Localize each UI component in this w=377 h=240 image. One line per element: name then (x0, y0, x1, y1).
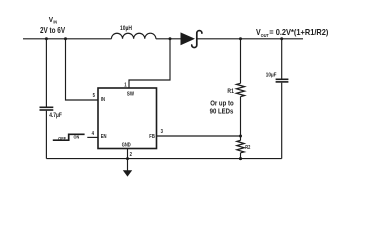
value label 10uH (120, 25, 132, 32)
EN drive waveform source (53, 134, 85, 140)
annotation Or up to 90 LEDs (210, 100, 234, 116)
svg-text:2: 2 (130, 151, 133, 156)
svg-text:5: 5 (93, 93, 96, 98)
node VOUT label (256, 28, 329, 38)
pin number 1 (124, 82, 127, 87)
wire between inductor and diode (156, 38, 181, 40)
node junction dot VIN A (45, 37, 48, 40)
svg-text:V: V (256, 28, 261, 38)
svg-text:OUT: OUT (261, 32, 269, 37)
wire input cap branch upper (45, 39, 47, 107)
ground (123, 159, 132, 177)
wire output cap branch upper (281, 39, 283, 79)
wire IN pin branch (66, 39, 99, 100)
label OFF (58, 136, 66, 142)
resistor R1 (237, 83, 245, 96)
svg-text:IN: IN (53, 19, 57, 25)
svg-text:Or up to: Or up to (210, 100, 233, 108)
svg-text:OFF: OFF (58, 136, 66, 142)
wire FB pin (157, 135, 241, 137)
wire GND pin (127, 149, 129, 159)
node junction dot R1 top (239, 37, 242, 40)
label ON (74, 134, 80, 140)
node junction dot VOUT (280, 37, 283, 40)
svg-text:EN: EN (101, 134, 107, 140)
wire output cap branch lower (281, 83, 283, 159)
pin label GND (122, 142, 132, 148)
pin number 4 (92, 130, 95, 135)
node junction dot GND (126, 157, 129, 160)
svg-text:FB: FB (149, 134, 155, 140)
capacitor C1 4.7uF (40, 107, 54, 110)
pin label EN (101, 134, 107, 140)
pin number 5 (93, 93, 96, 98)
pin number 3 (161, 129, 164, 134)
node junction dot R2 rail (239, 157, 242, 160)
op-amp U1 IC body (98, 88, 157, 149)
svg-text:ON: ON (74, 134, 80, 140)
wire R1 branch upper (240, 39, 242, 84)
value label 4.7uF (49, 112, 62, 119)
wire top rail output segment (196, 38, 303, 40)
svg-text:SW: SW (127, 91, 135, 97)
svg-text:IN: IN (101, 97, 106, 103)
svg-text:10µF: 10µF (266, 72, 277, 79)
svg-text:90 LEDs: 90 LEDs (210, 108, 234, 116)
wire R1 branch lower (240, 97, 242, 136)
wire R2 upper stub (240, 136, 242, 140)
node junction dot VIN B (64, 37, 67, 40)
pin label IN (101, 97, 106, 103)
svg-text:4: 4 (92, 130, 95, 135)
svg-text:2V to 6V: 2V to 6V (40, 25, 65, 35)
wire top rail input segment (23, 38, 111, 40)
svg-text:R2: R2 (245, 144, 251, 150)
wire EN pin (87, 136, 98, 138)
wire R2 lower stub (240, 153, 242, 159)
svg-text:4.7µF: 4.7µF (49, 112, 62, 119)
wire bottom rail (46, 158, 281, 160)
reference label R2 (245, 144, 251, 150)
capacitor C2 10uF (276, 79, 289, 82)
svg-text:10µH: 10µH (120, 25, 132, 32)
node junction dot R2 bottom (239, 157, 242, 160)
diode D1 schottky (181, 31, 202, 48)
pin number 2 (130, 151, 133, 156)
value label 10uF (266, 72, 277, 79)
svg-text:= 0.2V*(1+R1/R2): = 0.2V*(1+R1/R2) (269, 28, 329, 37)
pin label FB (149, 134, 155, 140)
resistor R2 (237, 140, 244, 152)
pin label SW (127, 91, 135, 97)
inductor L1 10uH (111, 33, 155, 39)
svg-text:R1: R1 (227, 88, 233, 94)
svg-text:GND: GND (122, 142, 132, 148)
node junction dot SW (169, 37, 172, 40)
svg-text:3: 3 (161, 129, 164, 134)
node VIN label (40, 16, 65, 35)
wire input cap branch lower (45, 111, 47, 159)
reference label R1 (227, 88, 233, 94)
wire SW pin branch (129, 39, 170, 88)
svg-text:1: 1 (124, 82, 127, 87)
node junction dot FB (239, 135, 242, 138)
